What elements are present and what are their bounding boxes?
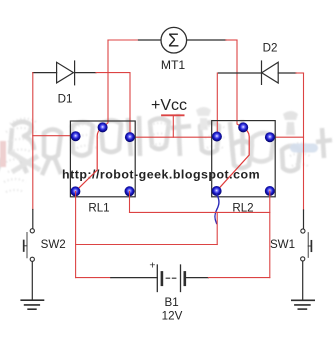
- wire D2 anode red: [296, 72, 304, 74]
- wire left column to RL1 top pin: [103, 40, 108, 127]
- wire left column D1 to SW2 red: [32, 73, 34, 210]
- wire RL2 lower-right down: [269, 191, 271, 278]
- wire right column black: [303, 210, 305, 229]
- svg-text:D2: D2: [263, 42, 278, 55]
- wire D2 corner to RL2 left pin red: [216, 73, 218, 137]
- relay RL2: [212, 121, 276, 215]
- svg-text:SW2: SW2: [41, 238, 66, 251]
- svg-text:+Vcc: +Vcc: [151, 97, 187, 114]
- ground right: [292, 300, 314, 309]
- svg-text:RL1: RL1: [88, 202, 109, 215]
- wire motor left red: [108, 39, 139, 41]
- wire D2 cathode black: [218, 72, 261, 74]
- wire right column red: [303, 73, 305, 210]
- diode D1: [57, 61, 75, 85]
- node +Vcc: [151, 97, 187, 137]
- wire D1 anode black: [33, 72, 57, 74]
- blue annotation squiggle: [215, 194, 219, 224]
- svg-text:D1: D1: [58, 93, 73, 106]
- wire left column black: [32, 210, 34, 229]
- wire D2 anode black: [278, 72, 296, 74]
- wire SW1 to ground: [302, 261, 304, 300]
- wire SW2 to ground: [31, 262, 33, 301]
- diode D2: [262, 61, 279, 84]
- svg-text:B1: B1: [165, 296, 179, 309]
- switch SW2: [24, 229, 35, 262]
- wire battery right red: [208, 277, 269, 279]
- switch SW1: [301, 229, 312, 261]
- svg-text:SW1: SW1: [270, 238, 295, 251]
- wire row A: [76, 244, 218, 246]
- svg-text:MT1: MT1: [161, 58, 186, 72]
- wire battery right black: [185, 277, 209, 279]
- wire battery left red: [76, 277, 111, 279]
- wire motor left black: [139, 39, 161, 41]
- wire RL1 lower-right down: [129, 191, 131, 212]
- svg-text:12V: 12V: [162, 309, 183, 322]
- relay RL1: [70, 121, 135, 215]
- svg-text:Σ: Σ: [168, 30, 179, 50]
- wire rowB to rowA vertical: [216, 212, 218, 244]
- battery B1: [157, 265, 185, 292]
- wire motor right red: [226, 39, 237, 41]
- watermark graffiti band: [0, 107, 332, 192]
- wire row B: [130, 211, 270, 213]
- wire battery left black: [111, 277, 158, 279]
- wire RL1 lower-left down: [75, 191, 77, 277]
- wire RL2 right pin to column: [270, 136, 304, 138]
- wire motor right black: [187, 39, 226, 41]
- ground left: [21, 300, 43, 309]
- wire Vcc rail between relays: [130, 136, 217, 138]
- svg-text:+: +: [149, 260, 155, 272]
- motor MT1: [161, 27, 187, 72]
- wire right column to RL2 top pin: [237, 40, 243, 127]
- wire D1 cathode red: [96, 73, 130, 137]
- wire D1 cathode black: [75, 72, 96, 74]
- wire branch to RL1 left pin: [33, 135, 76, 137]
